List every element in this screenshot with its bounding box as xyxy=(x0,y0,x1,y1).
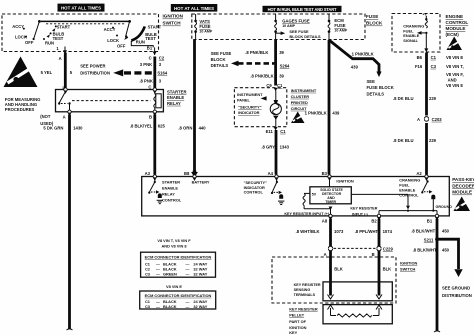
relay coil xyxy=(153,88,161,111)
svg-text:S211: S211 xyxy=(424,237,434,242)
svg-text:.8 BLK/WHT: .8 BLK/WHT xyxy=(411,229,435,234)
svg-text:SENSING: SENSING xyxy=(294,288,311,292)
svg-text:IGNITION: IGNITION xyxy=(400,260,417,265)
svg-text:A2: A2 xyxy=(416,171,422,176)
svg-text:FUSE: FUSE xyxy=(334,23,345,28)
connector C2 xyxy=(149,56,165,61)
svg-text:C3: C3 xyxy=(431,64,437,69)
splice S164 xyxy=(157,71,167,76)
svg-text:SWITCH: SWITCH xyxy=(163,21,182,26)
svg-text:V8 VIN T,: V8 VIN T, xyxy=(446,64,464,69)
svg-text:OFF: OFF xyxy=(117,44,126,49)
wire 3 PNK circuit 3 (ignition B1 to S164) xyxy=(140,57,162,89)
svg-text:A3: A3 xyxy=(145,171,151,176)
wire .8 DK BLU circuit 229 (C203 to module A2) xyxy=(393,123,437,175)
label KEY RESISTER INPUT (-) xyxy=(350,206,377,216)
ignition switch right bank contacts xyxy=(104,25,162,49)
label HOT AT ALL TIMES (middle) xyxy=(171,4,218,12)
svg-text:450: 450 xyxy=(442,229,450,234)
svg-text:KEY RESISTER: KEY RESISTER xyxy=(350,206,377,210)
label IGNITION SWITCH (lock cylinder) xyxy=(400,260,417,271)
svg-text:DETAILS: DETAILS xyxy=(211,63,229,68)
svg-text:439: 439 xyxy=(351,65,359,70)
reference resistor R1 (5V pull-up) xyxy=(303,193,331,208)
starter enable relay driver (switch + transistor + ground) xyxy=(148,180,163,204)
svg-text:RELAY: RELAY xyxy=(162,191,175,196)
svg-text:32 WAY: 32 WAY xyxy=(193,272,207,277)
wire 1 PNK/BLK circuit 439 (ECM fuse to module B3) xyxy=(305,40,340,175)
svg-text:(NOT: (NOT xyxy=(40,114,51,119)
svg-text:TIMER: TIMER xyxy=(325,200,336,204)
svg-text:F16: F16 xyxy=(415,64,423,69)
svg-text:C3: C3 xyxy=(145,304,151,309)
splice S211 xyxy=(424,237,439,242)
svg-text:BLOCK: BLOCK xyxy=(211,57,226,62)
svg-text:C: C xyxy=(148,84,151,89)
svg-text:CONTROL: CONTROL xyxy=(162,197,182,202)
relay pin A (bottom, not used) xyxy=(40,110,71,126)
connector E11 / C1 below instrument panel xyxy=(266,127,287,134)
svg-text:DECODER: DECODER xyxy=(452,183,474,188)
svg-text:START: START xyxy=(148,25,162,30)
svg-text:.8 WHT/BLK: .8 WHT/BLK xyxy=(296,229,320,234)
label INSTRUMENT PANEL xyxy=(237,92,267,102)
wire .8 PNK/BLK circuit 39 (GAGES fuse to S264) xyxy=(245,40,284,86)
svg-text:10 AMP: 10 AMP xyxy=(199,30,212,34)
svg-text:RELAY: RELAY xyxy=(167,101,181,106)
svg-text:PRINTED: PRINTED xyxy=(291,100,308,105)
label SEE GROUND DISTRIBUTION xyxy=(442,286,472,298)
module pin A8 xyxy=(322,214,333,223)
label CRANKING FUEL ENABLE CONTROL (module internal) xyxy=(399,177,420,197)
svg-text:PROCEDURES: PROCEDURES xyxy=(5,107,35,112)
svg-text:C: C xyxy=(149,56,152,61)
svg-text:GREEN: GREEN xyxy=(163,272,177,277)
wire .8 BLK/WHT circuit 450 (B1 to S211) xyxy=(411,219,449,238)
svg-text:32 WAY: 32 WAY xyxy=(193,304,207,309)
label STARTER ENABLE RELAY xyxy=(167,90,186,106)
svg-text:V8 VIN F,: V8 VIN F, xyxy=(446,72,464,77)
svg-text:C229: C229 xyxy=(383,246,394,251)
svg-text:C1: C1 xyxy=(280,129,286,134)
wire 5 YEL circuit 5 (ignition A to relay) xyxy=(41,53,73,90)
svg-text:3 PNK: 3 PNK xyxy=(140,62,152,67)
ECM connector identification table 2 xyxy=(140,291,216,309)
svg-text:.8 PNK: .8 PNK xyxy=(139,79,153,84)
mechanical link between switch banks xyxy=(41,20,130,22)
svg-text:B3: B3 xyxy=(322,171,328,176)
svg-text:V8 VIN E: V8 VIN E xyxy=(446,55,463,60)
svg-text:PASS-KEY: PASS-KEY xyxy=(452,177,474,182)
key resister sensing terminals box xyxy=(323,282,392,301)
ignition switch output to pin B1 xyxy=(131,41,153,47)
svg-text:A8: A8 xyxy=(322,218,328,223)
ground branch wire to ground distribution xyxy=(437,239,459,269)
svg-text:STARTER: STARTER xyxy=(167,90,186,95)
relay pin B (bottom of coil) xyxy=(149,110,157,119)
key resister pellet box with resistor R2 xyxy=(323,305,392,324)
svg-text:BATTERY: BATTERY xyxy=(192,179,210,184)
svg-text:229: 229 xyxy=(429,138,437,143)
svg-text:.8 BLK/YEL: .8 BLK/YEL xyxy=(130,124,153,129)
svg-text:BLK: BLK xyxy=(383,266,392,271)
ECM pin labels B6 C1 / F16 C3 xyxy=(415,55,464,88)
wire BLK B (connector to sensing terminal) xyxy=(372,251,392,300)
svg-text:A4: A4 xyxy=(268,171,274,176)
svg-text:SEE FUSE: SEE FUSE xyxy=(211,51,232,56)
ECM internal cranking fuel enable signal xyxy=(403,24,424,43)
svg-text:HOT AT ALL TIMES: HOT AT ALL TIMES xyxy=(61,6,101,11)
wire .8 GRY circuit 1343 (lamp to module A4) xyxy=(261,130,289,175)
svg-text:TEST: TEST xyxy=(145,36,156,41)
solid state detector and timer box U1 xyxy=(310,187,351,204)
ECM internal pull-up resistor to +V xyxy=(417,12,428,52)
svg-text:HOT AT ALL TIMES: HOT AT ALL TIMES xyxy=(174,6,214,11)
in-line connector C229 xyxy=(328,246,394,251)
svg-text:STARTER: STARTER xyxy=(162,179,180,184)
module pin A2 xyxy=(416,171,428,181)
svg-text:B1: B1 xyxy=(427,218,433,223)
wire .8 BLK/YEL circuit 625 (relay B to module A3) xyxy=(130,115,166,175)
ground G1 xyxy=(454,269,462,277)
svg-text:SEE POWER: SEE POWER xyxy=(80,64,105,69)
svg-text:V8 VIN T, V8 VIN F: V8 VIN T, V8 VIN F xyxy=(157,238,191,243)
svg-text:SIGNAL: SIGNAL xyxy=(403,38,418,43)
arrow SEE POWER DISTRIBUTION xyxy=(80,64,153,77)
ECM dashed box xyxy=(392,14,440,53)
label KEY RESISTER PELLET PART OF IGNITION KEY xyxy=(289,306,318,335)
svg-text:FUSE BLOCK: FUSE BLOCK xyxy=(367,85,394,90)
svg-text:MODULE: MODULE xyxy=(446,26,466,31)
splice S264 xyxy=(280,63,290,68)
svg-text:BLK: BLK xyxy=(334,266,343,271)
svg-text:DISTRIBUTION: DISTRIBUTION xyxy=(442,293,472,298)
relay internal switch contacts xyxy=(58,92,151,111)
svg-text:B2: B2 xyxy=(371,218,377,223)
ESD symbol for measuring and handling xyxy=(4,57,38,88)
label PASS-KEY DECODER MODULE xyxy=(452,177,474,195)
svg-text:1 PNK/BLK: 1 PNK/BLK xyxy=(352,52,374,57)
key resister sensing dashed box (lock cylinder) xyxy=(272,257,396,303)
svg-text:10 AMP: 10 AMP xyxy=(282,24,295,28)
svg-text:ACCY: ACCY xyxy=(12,24,24,29)
svg-text:DETAILS: DETAILS xyxy=(367,91,385,96)
svg-text:.8 DK BLU: .8 DK BLU xyxy=(393,96,413,101)
svg-text:ECM CONNECTOR IDENTIFICATION: ECM CONNECTOR IDENTIFICATION xyxy=(145,254,212,259)
label INSTRUMENT CLUSTER PRINTED CIRCUIT xyxy=(291,88,317,111)
ECM connector identification table 1 xyxy=(141,252,216,277)
GAGES fuse branch arrow: see fuse block details xyxy=(276,29,321,39)
module pin A3 xyxy=(145,171,157,181)
svg-text:1 PNK/BLK: 1 PNK/BLK xyxy=(305,110,327,115)
svg-text:BLOCK DETAILS: BLOCK DETAILS xyxy=(289,34,321,39)
svg-text:V8 VIN 8: V8 VIN 8 xyxy=(446,83,463,88)
svg-text:IGNITION: IGNITION xyxy=(163,14,184,19)
svg-text:625: 625 xyxy=(158,124,166,129)
svg-text:—: — xyxy=(186,304,190,309)
svg-text:229: 229 xyxy=(429,96,437,101)
label FOR MEASURING AND HANDLING PROCEDURES xyxy=(5,97,41,112)
svg-text:B: B xyxy=(372,252,375,257)
svg-text:10 AMP: 10 AMP xyxy=(334,28,347,32)
label 'SECURITY' INDICATOR xyxy=(238,104,262,115)
svg-text:B: B xyxy=(149,115,152,120)
svg-text:ECM CONNECTOR IDENTIFICATION: ECM CONNECTOR IDENTIFICATION xyxy=(145,293,212,298)
label 'SECURITY' INDICATOR CONTROL (module internal) xyxy=(244,180,268,194)
module pin B1 xyxy=(427,214,439,223)
label HOT IN RUN BULB TEST AND START xyxy=(263,6,342,12)
svg-text:.8 GRY: .8 GRY xyxy=(261,145,275,150)
ECM connector table header V8 VIN T F 8 xyxy=(157,238,191,248)
label ENGINE CONTROL MODULE (ECM) xyxy=(446,14,469,37)
svg-text:450: 450 xyxy=(442,247,450,252)
svg-text:TERMINALS: TERMINALS xyxy=(294,293,316,297)
svg-text:(ECM): (ECM) xyxy=(446,32,460,37)
svg-text:INDICATOR: INDICATOR xyxy=(238,110,259,115)
svg-text:"SECURITY": "SECURITY" xyxy=(238,104,262,109)
wire 1 PNK/BLK 439 branch to fuse block (diagonal) xyxy=(329,40,382,77)
svg-text:1343: 1343 xyxy=(280,145,290,150)
svg-text:.8 ORN: .8 ORN xyxy=(178,126,192,131)
svg-text:IGNITION: IGNITION xyxy=(336,178,353,183)
svg-text:ENABLE: ENABLE xyxy=(162,185,178,190)
svg-text:HOT IN RUN, BULB TEST AND STAR: HOT IN RUN, BULB TEST AND START xyxy=(268,7,337,12)
svg-text:5 DK GRN: 5 DK GRN xyxy=(43,126,63,131)
wire BLK A (connector to sensing terminal) xyxy=(324,251,343,300)
connector C9 / C1 at instrument panel xyxy=(266,83,283,91)
ESD symbol at instrument cluster xyxy=(291,112,305,124)
svg-text:—: — xyxy=(156,304,160,309)
svg-text:—: — xyxy=(156,272,160,277)
svg-text:KEY: KEY xyxy=(289,330,297,335)
svg-text:S264: S264 xyxy=(280,63,290,68)
relay pin 1 (top left) xyxy=(62,86,67,94)
starter enable relay box xyxy=(56,90,164,112)
svg-text:ENABLE: ENABLE xyxy=(167,95,184,100)
svg-text:SWITCH: SWITCH xyxy=(400,267,416,272)
GAGES fuse F2 xyxy=(274,14,310,40)
svg-text:439: 439 xyxy=(332,110,340,115)
solid state detector output to minus bus xyxy=(351,194,410,209)
svg-text:INSTRUMENT: INSTRUMENT xyxy=(237,92,263,97)
svg-text:SEE: SEE xyxy=(367,79,376,84)
svg-text:RUN: RUN xyxy=(136,39,145,44)
svg-text:C203: C203 xyxy=(432,117,443,122)
ignition switch left bank lever and pivot xyxy=(34,20,56,39)
svg-text:AND: AND xyxy=(448,78,457,83)
ESD symbol at PASS-Key module xyxy=(454,197,471,212)
svg-text:A: A xyxy=(324,252,327,257)
svg-text:C1: C1 xyxy=(431,55,437,60)
svg-text:.8 DK BLU: .8 DK BLU xyxy=(393,138,413,143)
wire .8 PPL/WHT circuit 1074 (B2 down) xyxy=(355,219,393,247)
ESD symbol at ECM xyxy=(447,37,463,51)
cranking fuel enable driver (switch + transistor) xyxy=(421,180,435,211)
svg-text:START: START xyxy=(57,24,71,29)
svg-text:GROUND: GROUND xyxy=(436,205,453,209)
label FUSE BLOCK xyxy=(366,14,383,26)
svg-text:KEY RESISTER: KEY RESISTER xyxy=(289,306,318,311)
svg-text:MODULE: MODULE xyxy=(452,190,472,195)
svg-text:C2: C2 xyxy=(159,56,165,61)
module pin A4 xyxy=(268,171,279,181)
svg-text:C3: C3 xyxy=(145,272,151,277)
svg-text:OFF: OFF xyxy=(25,40,34,45)
label KEY RESISTER SENSING TERMINALS xyxy=(294,283,321,297)
svg-text:+V: +V xyxy=(423,12,428,16)
label STARTER ENABLE RELAY CONTROL (module internal) xyxy=(162,179,182,202)
wire .8 BLK/WHT circuit 450 (S211 down) xyxy=(413,239,450,332)
svg-text:FUSE: FUSE xyxy=(199,24,210,29)
label IGNITION SWITCH xyxy=(163,14,184,26)
svg-text:CONTROL: CONTROL xyxy=(244,189,264,194)
ignition switch start return spring curve xyxy=(131,26,145,40)
ignition switch dashed box xyxy=(2,14,159,52)
svg-text:INSTRUMENT: INSTRUMENT xyxy=(291,88,317,93)
svg-text:BLACK: BLACK xyxy=(163,304,177,309)
svg-text:INPUT (-): INPUT (-) xyxy=(352,212,369,216)
svg-text:CLUSTER: CLUSTER xyxy=(291,94,310,99)
svg-text:E11: E11 xyxy=(266,129,274,134)
svg-text:RUN: RUN xyxy=(45,40,54,45)
wire .8 DK BLU circuit 229 (ECM to C203) xyxy=(393,53,437,116)
wire from B3 into solid state detector xyxy=(329,180,331,187)
wire .8 ORN circuit 440 (VATS fuse to module B8) xyxy=(178,40,206,173)
svg-text:BLOCK: BLOCK xyxy=(366,21,383,26)
svg-text:KEY RESISTER: KEY RESISTER xyxy=(294,283,321,287)
svg-text:.8 PNK/BLK: .8 PNK/BLK xyxy=(250,74,273,79)
label SEE FUSE BLOCK DETAILS (right) xyxy=(367,79,394,96)
VATS fuse F1 xyxy=(194,14,213,40)
svg-text:CONTROL: CONTROL xyxy=(446,20,469,25)
wire .8 PNK/BLK circuit 39 (S264 to instrument panel C9) xyxy=(250,74,284,79)
svg-text:5 YEL: 5 YEL xyxy=(41,70,53,75)
PASS-Key decoder module box xyxy=(142,177,450,216)
fuse block dashed box (VATS / GAGES / ECM fuses) xyxy=(192,14,365,40)
svg-text:5V: 5V xyxy=(312,192,317,196)
svg-text:B8: B8 xyxy=(184,171,190,176)
svg-text:A: A xyxy=(417,117,420,122)
svg-text:S164: S164 xyxy=(157,71,167,76)
module pin B8 xyxy=(184,171,198,182)
ignition switch right bank lever xyxy=(124,20,131,40)
wire 5 DK GRN circuit 1430 xyxy=(43,115,83,331)
svg-text:A: A xyxy=(59,56,62,61)
svg-text:39: 39 xyxy=(279,50,284,55)
svg-text:1430: 1430 xyxy=(73,126,83,131)
svg-text:—: — xyxy=(186,272,190,277)
svg-text:V8 VIN E: V8 VIN E xyxy=(166,284,182,289)
svg-text:SEE GROUND: SEE GROUND xyxy=(442,286,470,291)
security indicator bulb xyxy=(270,91,281,127)
svg-text:PANEL: PANEL xyxy=(237,97,251,102)
key resister minus bus wire xyxy=(379,210,437,215)
node key resister input plus to pin A8 xyxy=(329,207,333,215)
svg-text:.8 BLK/WHT: .8 BLK/WHT xyxy=(413,247,437,252)
in-line connector C203 xyxy=(417,117,442,122)
instrument panel dashed box xyxy=(234,88,286,127)
module pin B3 xyxy=(322,171,332,181)
svg-text:AND V8 VIN 8: AND V8 VIN 8 xyxy=(161,243,187,248)
svg-text:440: 440 xyxy=(199,126,207,131)
svg-text:DISTRIBUTION: DISTRIBUTION xyxy=(80,71,110,76)
svg-text:1073: 1073 xyxy=(334,229,344,234)
svg-text:PART OF: PART OF xyxy=(289,319,306,324)
svg-text:39: 39 xyxy=(279,74,284,79)
svg-text:B1: B1 xyxy=(147,45,153,50)
pin A / 1 of ignition switch (left) xyxy=(56,46,67,61)
svg-text:1074: 1074 xyxy=(383,229,393,234)
svg-text:B6: B6 xyxy=(417,55,423,60)
ignition switch left bank contacts xyxy=(12,24,70,46)
svg-text:LOCK: LOCK xyxy=(107,38,119,43)
arrow SEE FUSE BLOCK DETAILS (from S264) xyxy=(211,51,275,68)
wire .8 PNK circuit 3 (S164 to relay coil C) xyxy=(139,79,161,90)
security indicator driver (switch + transistor + ground) xyxy=(271,180,285,205)
wire .8 WHT/BLK circuit 1073 (A8 down) xyxy=(296,219,344,247)
pin B1 of ignition switch xyxy=(147,45,157,55)
label HOT AT ALL TIMES (left) xyxy=(58,4,105,12)
svg-text:KEY RESISTER INPUT (+): KEY RESISTER INPUT (+) xyxy=(284,212,329,216)
svg-text:CONTROL: CONTROL xyxy=(399,192,419,197)
module pin B2 xyxy=(371,214,381,223)
svg-text:ENGINE: ENGINE xyxy=(446,14,464,19)
svg-text:PELLET: PELLET xyxy=(289,313,305,318)
svg-text:GAGES FUSE: GAGES FUSE xyxy=(282,18,310,23)
svg-text:.8 PPL/WHT: .8 PPL/WHT xyxy=(355,229,379,234)
svg-text:FUSE: FUSE xyxy=(366,14,378,19)
ECM fuse F3 xyxy=(328,14,348,40)
svg-text:TEST: TEST xyxy=(53,36,64,41)
svg-text:.8 PNK/BLK: .8 PNK/BLK xyxy=(245,50,268,55)
svg-text:A: A xyxy=(63,115,66,120)
